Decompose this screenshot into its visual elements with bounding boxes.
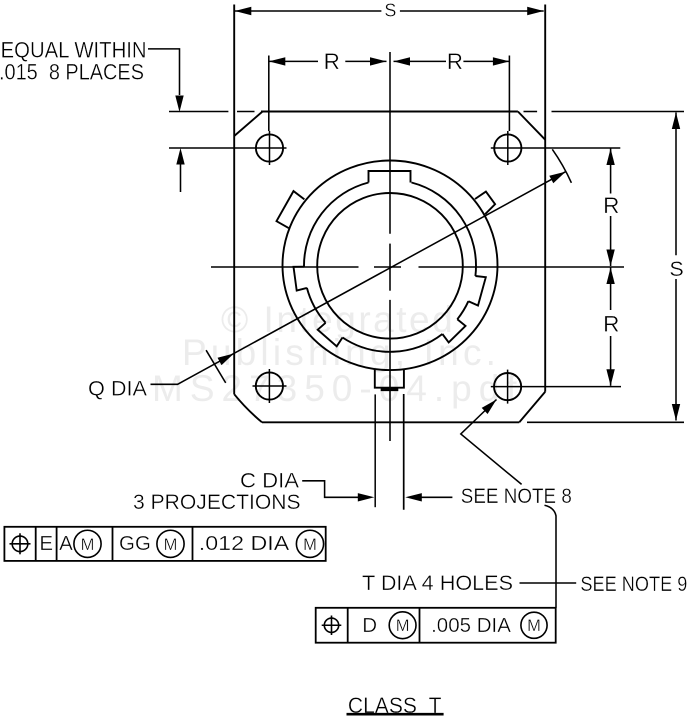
frame 1 tolerance modifier M: [296, 530, 323, 557]
Q diameter leader and dimension line: [151, 172, 566, 385]
SEE NOTE 8 arrow: [413, 496, 452, 498]
position symbol frame 2: [324, 618, 338, 632]
S dimension line top: [235, 10, 382, 12]
feature control frame 2 box: [316, 608, 556, 643]
svg-text:SEE NOTE 9: SEE NOTE 9: [580, 573, 687, 596]
T DIA to note line: [520, 582, 577, 584]
watermark line 1: [221, 299, 455, 341]
svg-text:A: A: [59, 532, 73, 555]
svg-text:D: D: [362, 614, 377, 637]
svg-text:Q DIA: Q DIA: [88, 378, 147, 401]
connector ring inner circle: [317, 193, 463, 339]
flange left edge with S extension: [233, 5, 235, 395]
frame 1 GG modifier M: [157, 530, 184, 557]
svg-text:M: M: [81, 536, 95, 554]
feature control frame 1 box: [4, 527, 325, 561]
shell bottom projection: [375, 369, 404, 388]
C DIA leader: [302, 481, 366, 498]
connector horizontal centerline: [211, 266, 359, 268]
extension line bottom edge right: [527, 421, 684, 423]
svg-text:.015 8 PLACES: .015 8 PLACES: [0, 59, 144, 84]
bottom projection step bar: [381, 388, 399, 391]
mounting hole bottom-right: [494, 373, 521, 400]
svg-text:R: R: [603, 193, 619, 218]
flange top-right chamfer: [518, 112, 545, 140]
svg-text:C DIA: C DIA: [240, 470, 299, 493]
svg-text:M: M: [527, 617, 541, 635]
frame 2 D modifier M: [389, 612, 416, 639]
R extension line right: [508, 56, 510, 132]
equal-within lower arrow: [180, 165, 182, 193]
connector ring outer circle (interrupted by keys): [304, 183, 476, 352]
extension line top edge left: [169, 111, 228, 113]
shell tab projection upper-left: [277, 191, 305, 228]
connector vertical centerline: [389, 52, 391, 234]
watermark line 3: [152, 368, 524, 410]
svg-text:R: R: [324, 49, 340, 74]
svg-text:CLASS T: CLASS T: [348, 693, 442, 716]
mounting hole bottom-left: [256, 372, 283, 399]
R extension line left: [268, 56, 270, 132]
C DIA extension line right: [403, 394, 405, 510]
svg-text:GG: GG: [119, 532, 151, 555]
note leader hook: [545, 505, 557, 608]
ring key tooth lower-left: [318, 323, 343, 347]
svg-text:M: M: [303, 536, 317, 554]
flange top edge: [261, 111, 518, 113]
svg-text:E: E: [39, 532, 53, 555]
svg-text:M: M: [396, 617, 410, 635]
equal-within leader: [148, 49, 180, 95]
flange right edge with S extension: [544, 5, 546, 392]
Q phantom arc top-right: [552, 149, 571, 183]
flange bottom edge: [262, 421, 519, 423]
hole centerline top-left: [169, 147, 287, 149]
flange bottom-right chamfer: [519, 392, 545, 423]
Q circle tangent tick: [206, 350, 226, 383]
shell tab projection upper-right: [475, 192, 495, 215]
connector outer shell circle: [283, 160, 498, 370]
master key bump at 12 o'clock: [369, 171, 411, 183]
svg-text:M: M: [164, 536, 178, 554]
R dimension line top-left: [269, 60, 318, 62]
svg-text:T DIA 4 HOLES: T DIA 4 HOLES: [362, 572, 513, 595]
frame 1 A modifier M: [74, 530, 101, 557]
svg-text:.005 DIA: .005 DIA: [431, 614, 511, 637]
svg-text:S: S: [669, 257, 683, 281]
T DIA hole leader: [461, 400, 522, 485]
svg-text:S: S: [384, 1, 396, 21]
hole crosshair bottom-left: [253, 385, 287, 387]
svg-text:R: R: [447, 49, 463, 74]
R dimension line right-lower: [610, 268, 612, 311]
R dimension line top-right: [394, 60, 447, 62]
svg-text:SEE NOTE 8: SEE NOTE 8: [461, 485, 572, 508]
Q arrowhead at lower-left: [218, 354, 235, 366]
extension dash top edge right: [524, 111, 538, 113]
hole centerline bottom-right: [491, 386, 621, 388]
R dimension line right-upper: [610, 149, 612, 194]
svg-text:.012 DIA: .012 DIA: [199, 532, 290, 555]
ring key tooth right 3 o'clock: [468, 276, 485, 306]
mounting hole top-left: [256, 134, 283, 161]
flange top-left chamfer: [234, 112, 262, 137]
svg-text:R: R: [603, 312, 619, 337]
hole centerline top-right: [491, 147, 621, 149]
ring key tooth left 9 o'clock: [294, 267, 307, 291]
frame 2 tolerance modifier M: [521, 612, 547, 638]
mounting hole top-right: [494, 134, 521, 161]
watermark line 2: [182, 332, 500, 374]
ring key tooth lower-right: [442, 319, 465, 342]
flange bottom-left corner arc: [234, 394, 262, 422]
Q arrowhead at upper-right: [549, 172, 566, 184]
S dimension line right: [675, 113, 677, 256]
position symbol frame 1: [12, 536, 28, 552]
svg-text:3 PROJECTIONS: 3 PROJECTIONS: [133, 491, 301, 514]
C DIA extension line left: [374, 394, 376, 507]
